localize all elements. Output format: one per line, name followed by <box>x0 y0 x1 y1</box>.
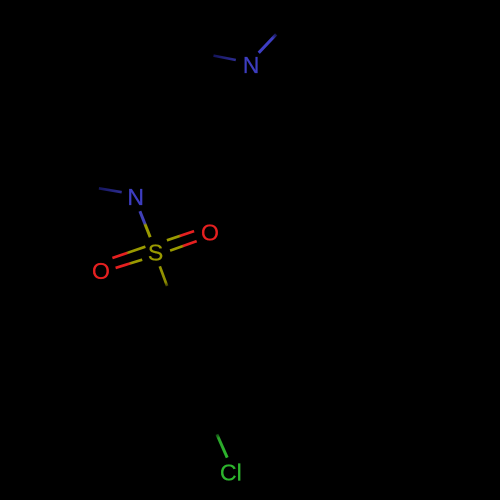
svg-text:S: S <box>148 239 163 265</box>
wire S=O right lower line <box>170 241 197 251</box>
wire N1-C (bond going left from top nitrogen) <box>214 56 236 60</box>
wire S=O left lower line <box>116 260 143 268</box>
svg-text:O: O <box>92 258 110 284</box>
wire S=O left upper line <box>112 247 145 258</box>
wire N2-S (sulfonamide bond) <box>140 211 150 237</box>
wire N2-CH3 (bond to methyl, left) <box>99 188 122 192</box>
svg-text:N: N <box>127 184 144 210</box>
wire S=O right upper line <box>167 231 194 240</box>
wire C-Cl bond <box>217 434 227 457</box>
wire S-C ring bond <box>160 266 167 286</box>
wire N1-CH3 (bond to methyl, upper right) <box>259 34 277 53</box>
svg-text:Cl: Cl <box>220 460 242 486</box>
svg-text:N: N <box>243 52 260 78</box>
svg-text:O: O <box>201 220 219 246</box>
